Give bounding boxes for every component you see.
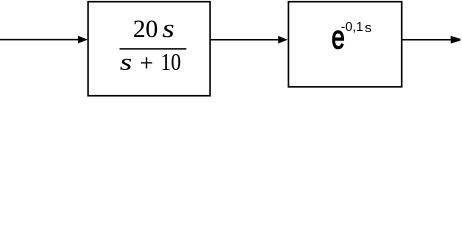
arrowhead: output [451, 36, 461, 44]
svg-text:20: 20 [133, 16, 158, 43]
arrowhead: input into block G1 [78, 36, 88, 44]
fraction bar of G1 [120, 48, 187, 50]
wire: input signal line [0, 39, 80, 41]
svg-text:s: s [162, 14, 174, 43]
block G1: transfer function 20s/(s+10) [88, 2, 210, 96]
wire: output signal line [402, 39, 451, 41]
block G2: dead time e^-0,1s [288, 2, 401, 87]
svg-text:-0,1: -0,1 [341, 19, 363, 34]
svg-text:s: s [365, 21, 372, 35]
svg-text:10: 10 [161, 48, 181, 75]
svg-text:+: + [140, 51, 154, 77]
arrowhead: into block G2 [278, 36, 288, 44]
wire: between block G1 and block G2 [211, 39, 280, 41]
svg-text:s: s [120, 49, 132, 76]
